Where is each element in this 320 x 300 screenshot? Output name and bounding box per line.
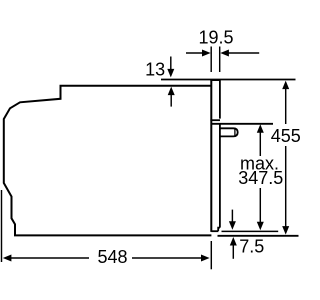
svg-text:19.5: 19.5 [198, 28, 233, 48]
svg-text:7.5: 7.5 [239, 237, 264, 257]
svg-text:548: 548 [97, 247, 127, 267]
svg-text:13: 13 [145, 60, 165, 80]
svg-text:455: 455 [271, 126, 300, 146]
svg-text:347.5: 347.5 [238, 168, 283, 188]
